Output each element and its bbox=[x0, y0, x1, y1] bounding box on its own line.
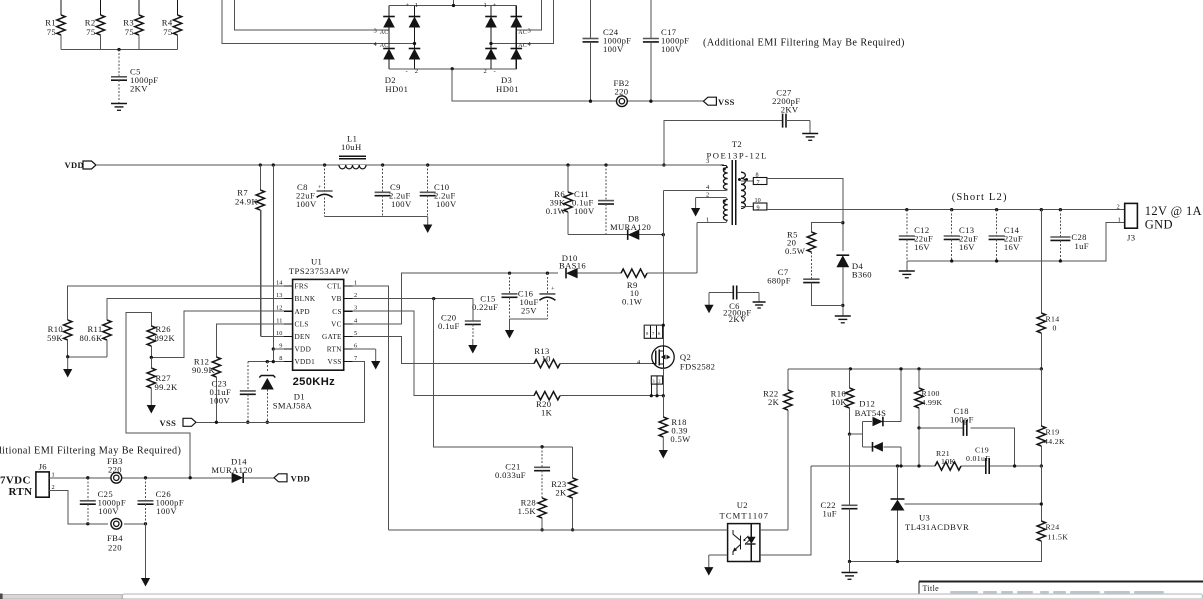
resistor R7 bbox=[259, 165, 261, 190]
resistor R19 (44.2K) bbox=[1040, 369, 1042, 426]
resistor R13 (10) bbox=[522, 363, 534, 365]
svg-text:9: 9 bbox=[757, 205, 760, 212]
diode D12 upper bbox=[873, 417, 883, 427]
svg-text:Title: Title bbox=[923, 584, 940, 593]
diode D4 (B360) bbox=[836, 255, 849, 267]
resistor R3 bbox=[138, 0, 140, 15]
svg-text:D12: D12 bbox=[859, 399, 875, 409]
capacitor C27 bbox=[782, 114, 784, 128]
diode bridge D3 (HD01) bbox=[490, 6, 492, 69]
wire output rail bbox=[767, 209, 1125, 211]
node VDD-pin tap bbox=[272, 163, 275, 166]
resistor R22 (2K) bbox=[787, 369, 789, 390]
node C12 top bbox=[905, 208, 908, 211]
wire VB row bbox=[352, 298, 472, 300]
svg-text:VDD: VDD bbox=[295, 346, 312, 354]
vss arrow pin2 bbox=[695, 198, 697, 209]
svg-text:16V: 16V bbox=[914, 242, 930, 252]
resistor R14 (0) bbox=[1040, 210, 1042, 313]
svg-text:1: 1 bbox=[354, 280, 357, 287]
svg-text:BLNK: BLNK bbox=[295, 295, 316, 303]
svg-text:FB4: FB4 bbox=[107, 533, 123, 543]
svg-text:-: - bbox=[494, 68, 496, 75]
U1 pins bbox=[284, 285, 293, 287]
svg-text:BAT54S: BAT54S bbox=[855, 408, 887, 418]
svg-text:3: 3 bbox=[374, 28, 377, 35]
svg-text:VSS: VSS bbox=[160, 418, 177, 428]
svg-text:U1: U1 bbox=[311, 257, 322, 267]
svg-text:12: 12 bbox=[276, 305, 282, 312]
node C5 tap bbox=[117, 48, 120, 51]
bottom scrollbar bbox=[0, 595, 1203, 599]
node C14 top bbox=[995, 208, 998, 211]
resistor R24 (11.5K) bbox=[1040, 466, 1042, 521]
svg-text:J3: J3 bbox=[1127, 233, 1135, 243]
node C27 rail bbox=[662, 163, 665, 166]
wire R26 top to VDD line bbox=[126, 312, 190, 478]
resistor R18 (0.39 0.5W) bbox=[662, 396, 664, 417]
node D12 low anode bbox=[899, 464, 902, 467]
svg-text:1.5K: 1.5K bbox=[518, 506, 537, 516]
node C14 bottom bbox=[995, 259, 998, 262]
node TL431 anode bbox=[896, 560, 899, 563]
svg-text:HD01: HD01 bbox=[385, 84, 408, 94]
svg-text:TCMT1107: TCMT1107 bbox=[720, 511, 770, 521]
svg-text:2: 2 bbox=[484, 68, 487, 75]
optocoupler U2 box bbox=[728, 524, 760, 562]
svg-text:0.1W: 0.1W bbox=[546, 206, 567, 216]
svg-text:892K: 892K bbox=[155, 333, 176, 343]
wire VDD to pin9 bbox=[272, 165, 274, 349]
wire drain vertical bbox=[662, 191, 664, 347]
svg-text:44.2K: 44.2K bbox=[1044, 437, 1065, 446]
svg-text:220: 220 bbox=[108, 543, 122, 553]
svg-text:100V: 100V bbox=[156, 506, 177, 516]
svg-text:-: - bbox=[406, 68, 408, 75]
node C25 bottom bbox=[86, 522, 89, 525]
svg-text:12V @ 1A: 12V @ 1A bbox=[1145, 204, 1202, 218]
node R5 tap bbox=[841, 221, 844, 224]
wire pin8 net bbox=[767, 178, 843, 251]
svg-text:3: 3 bbox=[528, 28, 531, 35]
svg-text:MURA120: MURA120 bbox=[610, 222, 651, 232]
svg-text:0.5W: 0.5W bbox=[785, 246, 806, 256]
wire C15/C16 bottom bbox=[510, 318, 548, 320]
wire APD tap bbox=[151, 311, 283, 357]
wire R6/C11 bottom bbox=[568, 234, 663, 236]
svg-text:MURA120: MURA120 bbox=[211, 465, 252, 475]
svg-text:RTN: RTN bbox=[9, 486, 33, 498]
svg-text:2: 2 bbox=[415, 68, 418, 75]
svg-text:10K: 10K bbox=[831, 397, 847, 407]
svg-text:1: 1 bbox=[1118, 216, 1121, 223]
node C25 top bbox=[86, 476, 89, 479]
svg-text:7VDC: 7VDC bbox=[0, 475, 31, 487]
svg-text:0.1W: 0.1W bbox=[622, 297, 643, 307]
svg-text:VC: VC bbox=[331, 320, 342, 328]
redacted title text bbox=[950, 591, 1164, 593]
svg-text:Q2: Q2 bbox=[680, 352, 691, 362]
capacitor C28 (1uF) bbox=[1059, 210, 1061, 237]
resistor R10 (59K) bbox=[63, 320, 71, 340]
resistor R26 (892K) bbox=[147, 326, 155, 346]
svg-text:FDS2582: FDS2582 bbox=[680, 362, 715, 372]
svg-text:VSS: VSS bbox=[328, 358, 342, 366]
wire VC to gate-drive row bbox=[352, 273, 557, 324]
svg-text:VB: VB bbox=[331, 295, 342, 303]
wire DEN to R7 bbox=[261, 335, 284, 337]
wire fb mid row bbox=[811, 465, 935, 467]
svg-text:+: + bbox=[406, 2, 410, 9]
svg-text:1K: 1K bbox=[541, 408, 553, 418]
svg-text:R100: R100 bbox=[922, 389, 940, 398]
svg-text:HD01: HD01 bbox=[496, 84, 519, 94]
svg-text:+: + bbox=[551, 286, 555, 293]
capacitor C17 bbox=[650, 0, 652, 39]
svg-text:10: 10 bbox=[755, 197, 761, 204]
svg-text:6: 6 bbox=[354, 343, 357, 350]
vss arrow R10 bbox=[67, 357, 69, 370]
wire C18 row bbox=[919, 427, 963, 429]
vss arrow C6 bbox=[708, 293, 710, 306]
node bridge top bbox=[452, 4, 455, 7]
capacitor C7 bbox=[810, 252, 812, 279]
diode D12 wiring bbox=[850, 433, 863, 435]
node R100 rail bbox=[917, 367, 920, 370]
node C13 bottom bbox=[950, 259, 953, 262]
svg-text:SMAJ58A: SMAJ58A bbox=[273, 401, 313, 411]
capacitor C10 bbox=[427, 165, 429, 192]
svg-text:4.99K: 4.99K bbox=[922, 398, 943, 407]
title block border bbox=[919, 581, 1203, 583]
vss arrow U2 bbox=[708, 555, 710, 568]
node R12 vss bbox=[215, 421, 218, 424]
svg-text:T2: T2 bbox=[732, 139, 742, 149]
ground C6 bbox=[753, 301, 766, 303]
node ref divider bbox=[1040, 502, 1043, 505]
op-amp U1 body bbox=[293, 279, 344, 370]
node R100 mid bbox=[917, 464, 920, 467]
node R23 bottom bbox=[571, 528, 574, 531]
ground below C5 bbox=[111, 103, 127, 105]
svg-text:1uF: 1uF bbox=[823, 509, 837, 519]
svg-text:TL431ACDBVR: TL431ACDBVR bbox=[905, 522, 969, 532]
node C15 top bbox=[508, 272, 511, 275]
capacitor C18 (100pF) bbox=[962, 420, 964, 436]
wire CS to R20 row bbox=[352, 311, 522, 396]
resistor R1 bbox=[60, 0, 62, 15]
diode bridge D2 (HD01) bbox=[388, 6, 390, 69]
connector J3 bbox=[1125, 203, 1138, 228]
svg-text:0.033uF: 0.033uF bbox=[495, 470, 526, 480]
ground below C12 bbox=[906, 261, 908, 271]
svg-text:AC: AC bbox=[518, 43, 527, 49]
svg-text:R24: R24 bbox=[1046, 523, 1060, 532]
node R7 tap bbox=[259, 163, 262, 166]
svg-text:250KHz: 250KHz bbox=[293, 376, 336, 388]
wire VSS row bbox=[196, 421, 365, 423]
svg-text:2K: 2K bbox=[768, 397, 780, 407]
inductor L1 bbox=[339, 165, 366, 167]
svg-text:VSS: VSS bbox=[718, 97, 735, 107]
node R26wire tap bbox=[189, 476, 192, 479]
resistor R27 (99.2K) bbox=[150, 357, 152, 368]
capacitor C5 bbox=[118, 50, 120, 77]
wire fb top rail bbox=[788, 368, 1041, 370]
svg-text:7: 7 bbox=[354, 355, 357, 362]
capacitor C23 bbox=[247, 362, 249, 391]
svg-text:AC: AC bbox=[380, 30, 389, 36]
svg-text:VDD: VDD bbox=[291, 473, 310, 483]
connector J6 bbox=[36, 472, 49, 497]
svg-text:2KV: 2KV bbox=[130, 84, 148, 94]
T2 aux winding pins 2-1 bbox=[696, 198, 728, 200]
node C16 top bbox=[546, 272, 549, 275]
svg-text:16V: 16V bbox=[1004, 242, 1020, 252]
svg-text:75: 75 bbox=[47, 27, 56, 37]
svg-text:B360: B360 bbox=[852, 269, 872, 279]
node D2 pin4 bbox=[413, 42, 416, 45]
svg-text:TPS23753APW: TPS23753APW bbox=[289, 266, 350, 276]
node R16 rail bbox=[849, 367, 852, 370]
node C24 bottom bbox=[589, 100, 592, 103]
node C9 tap bbox=[381, 163, 384, 166]
node C11 tap bbox=[604, 163, 607, 166]
svg-text:CS: CS bbox=[332, 308, 342, 316]
wire RTN arrow bbox=[352, 348, 375, 350]
node TL431 cathode bbox=[896, 464, 899, 467]
node D3 pin4 bbox=[489, 42, 492, 45]
svg-text:R1: R1 bbox=[45, 18, 56, 28]
svg-text:RTN: RTN bbox=[327, 346, 342, 354]
capacitor C8 bbox=[324, 165, 326, 191]
node C28 bottom bbox=[1059, 259, 1062, 262]
T2 primary winding pins 3-4 bbox=[721, 165, 728, 168]
node R14 top bbox=[1040, 208, 1043, 211]
node D1 top bbox=[266, 360, 269, 363]
transistor Q2 (FDS2582) bbox=[652, 346, 674, 368]
svg-text:R14: R14 bbox=[1046, 315, 1060, 324]
node C28 top bbox=[1059, 208, 1062, 211]
svg-text:(Additional EMI Filtering May: (Additional EMI Filtering May Be Require… bbox=[0, 446, 181, 457]
svg-text:0: 0 bbox=[1053, 324, 1057, 333]
node D12 top rail bbox=[899, 367, 902, 370]
svg-text:VDD1: VDD1 bbox=[295, 358, 316, 366]
svg-text:8: 8 bbox=[279, 355, 282, 362]
wire FB4 out bbox=[124, 523, 146, 525]
vss arrow input bbox=[145, 524, 147, 579]
svg-text:100V: 100V bbox=[296, 199, 317, 209]
wire VDD1 row bbox=[248, 361, 284, 363]
svg-text:CTL: CTL bbox=[327, 283, 342, 291]
node fb rail right bbox=[1040, 367, 1043, 370]
svg-text:R19: R19 bbox=[1046, 428, 1060, 437]
capacitor C26 bbox=[145, 478, 147, 501]
diode D8 (MURA120) bbox=[628, 230, 640, 240]
resistor R20 (1K) bbox=[522, 395, 534, 397]
capacitor C6 (2200pF 2KV) bbox=[709, 292, 733, 294]
svg-text:2K: 2K bbox=[555, 488, 567, 498]
node VDD1 tie bbox=[272, 360, 275, 363]
svg-text:+: + bbox=[493, 2, 497, 9]
resistor R28 (1.5K) bbox=[538, 498, 546, 518]
snubber R5 bbox=[811, 223, 842, 232]
svg-text:10: 10 bbox=[276, 330, 282, 337]
svg-text:11.5K: 11.5K bbox=[1048, 532, 1069, 541]
svg-text:CLS: CLS bbox=[295, 320, 309, 328]
svg-text:0.22uF: 0.22uF bbox=[472, 302, 498, 312]
svg-text:R3: R3 bbox=[123, 18, 134, 28]
node VDD pin bbox=[272, 347, 275, 350]
svg-text:3: 3 bbox=[354, 305, 357, 312]
svg-text:90.9K: 90.9K bbox=[192, 365, 215, 375]
wire R10/R11 bus bbox=[68, 356, 107, 358]
svg-text:R4: R4 bbox=[162, 18, 173, 28]
capacitor C13 (22uF 16V) bbox=[951, 210, 953, 236]
vss arrow R18 bbox=[662, 437, 664, 451]
svg-text:+: + bbox=[318, 184, 322, 191]
svg-text:2KV: 2KV bbox=[729, 314, 747, 324]
svg-text:100V: 100V bbox=[574, 206, 595, 216]
node C18 join bbox=[1013, 464, 1016, 467]
resistor R11 (80.6K) bbox=[103, 320, 111, 340]
svg-text:GND: GND bbox=[1145, 218, 1173, 232]
U2 LED bbox=[750, 524, 752, 537]
svg-text:220: 220 bbox=[108, 465, 122, 475]
wire AC-B left loop bbox=[222, 0, 415, 44]
node C21 top bbox=[540, 445, 543, 448]
node VB junction bbox=[432, 297, 435, 300]
svg-text:1uF: 1uF bbox=[1075, 241, 1089, 251]
wire bridge output down bbox=[452, 69, 703, 101]
capacitor C11 bbox=[605, 165, 607, 201]
capacitor C12 (22uF 16V) bbox=[906, 210, 908, 236]
svg-text:100pF: 100pF bbox=[950, 415, 974, 425]
node R6 tap bbox=[566, 163, 569, 166]
ferrite bead FB4 bbox=[111, 518, 122, 529]
ground below C27 bbox=[802, 133, 818, 135]
diode D1 (SMAJ58A) TVS bbox=[266, 362, 268, 372]
node bridge bottom bbox=[451, 67, 454, 70]
svg-text:75: 75 bbox=[125, 27, 134, 37]
wire U2 right-top to R22 bbox=[760, 529, 788, 531]
svg-text:7: 7 bbox=[757, 179, 760, 186]
T2 pin box 8/7 bbox=[741, 180, 753, 182]
svg-text:99.2K: 99.2K bbox=[155, 382, 178, 392]
node C26 bottom bbox=[144, 522, 147, 525]
wire CLS to R12 bbox=[216, 324, 283, 357]
diode D14 (MURA120) bbox=[232, 473, 244, 483]
wire U2 pin left-bottom bbox=[709, 554, 728, 556]
wire J6 pin1 row bbox=[49, 477, 231, 479]
svg-text:3: 3 bbox=[706, 158, 709, 165]
svg-text:2: 2 bbox=[354, 292, 357, 299]
svg-text:AC: AC bbox=[380, 43, 389, 49]
resistor R12 (90.9K) bbox=[212, 357, 220, 377]
ground below D4 bbox=[835, 315, 851, 317]
svg-text:VDD: VDD bbox=[65, 160, 84, 170]
wire C8-C10 bottom bbox=[325, 216, 428, 218]
transformer T2 core bbox=[731, 160, 733, 225]
svg-text:2: 2 bbox=[1117, 204, 1120, 211]
node C10 tap bbox=[426, 163, 429, 166]
svg-text:8: 8 bbox=[756, 172, 759, 179]
svg-text:U2: U2 bbox=[737, 500, 748, 510]
svg-text:59K: 59K bbox=[47, 333, 63, 343]
diode D12 lower bbox=[873, 442, 883, 452]
node R100 bottom bbox=[917, 426, 920, 429]
Q2 source pin boxes bbox=[651, 376, 662, 384]
node C17 bottom bbox=[649, 100, 652, 103]
wire CTL bottom rail bbox=[389, 529, 728, 531]
wire AC-A left loop bbox=[234, 0, 389, 30]
wire R7 to DEN bbox=[259, 210, 261, 336]
wire bridge bottom rail bbox=[389, 68, 516, 70]
svg-text:5: 5 bbox=[354, 330, 357, 337]
vss arrow C15 bbox=[509, 319, 511, 331]
node C23 bottom bbox=[246, 421, 249, 424]
resistor R6 bbox=[567, 165, 569, 192]
flag VDD bottom bbox=[274, 474, 287, 482]
capacitor C15 (0.22uF) bbox=[509, 273, 511, 294]
resistor R21 (10K) bbox=[935, 462, 961, 470]
diode D10 (BAS16) bbox=[566, 268, 578, 278]
svg-text:0.01uF: 0.01uF bbox=[966, 454, 990, 463]
node R28 bottom bbox=[540, 528, 543, 531]
node R26/R27 bbox=[150, 356, 153, 359]
flag VSS top bbox=[703, 97, 716, 105]
svg-text:9: 9 bbox=[279, 343, 282, 350]
svg-text:(Additional EMI Filtering May: (Additional EMI Filtering May Be Require… bbox=[703, 38, 905, 49]
node D4 anode bbox=[841, 304, 844, 307]
svg-text:10: 10 bbox=[542, 353, 551, 363]
svg-text:11: 11 bbox=[276, 317, 282, 324]
wire U2 pin left-top bbox=[719, 529, 728, 531]
resistor R2 bbox=[100, 0, 102, 15]
capacitor C20 bbox=[472, 299, 474, 321]
node C26 top bbox=[144, 476, 147, 479]
svg-text:14: 14 bbox=[276, 280, 283, 287]
wire C27 to rail bbox=[664, 121, 782, 165]
capacitor C14 (22uF 16V) bbox=[996, 210, 998, 236]
svg-text:2: 2 bbox=[706, 191, 709, 198]
node source a bbox=[650, 394, 653, 397]
svg-text:GATE: GATE bbox=[322, 333, 342, 341]
svg-text:16V: 16V bbox=[959, 242, 975, 252]
tl431 U3 bbox=[897, 466, 899, 499]
svg-text:BAS16: BAS16 bbox=[559, 261, 586, 271]
T2 pin box 10/9 bbox=[741, 205, 753, 207]
capacitor C21 (0.033uF) bbox=[541, 447, 543, 468]
svg-text:100V: 100V bbox=[391, 199, 412, 209]
svg-text:25V: 25V bbox=[521, 306, 537, 316]
wire VB-C21 vertical bbox=[434, 299, 573, 447]
wire AC-D right bbox=[491, 0, 554, 44]
svg-text:1: 1 bbox=[706, 216, 709, 223]
wire BLNK to R11 bbox=[107, 299, 284, 320]
ground bottom rail bbox=[849, 562, 851, 573]
node D1 bottom bbox=[266, 421, 269, 424]
capacitor C25 bbox=[87, 478, 89, 501]
vss arrow R27 bbox=[150, 388, 152, 406]
wire GATE to R13 row bbox=[352, 336, 522, 363]
node D8 anode on drain bbox=[662, 233, 665, 236]
wire pin1 to gate-drive row bbox=[696, 222, 698, 273]
svg-text:100V: 100V bbox=[98, 506, 119, 516]
resistor R4 bbox=[177, 0, 179, 15]
wire VDD rail bbox=[96, 164, 721, 166]
node C8 tap bbox=[323, 163, 326, 166]
